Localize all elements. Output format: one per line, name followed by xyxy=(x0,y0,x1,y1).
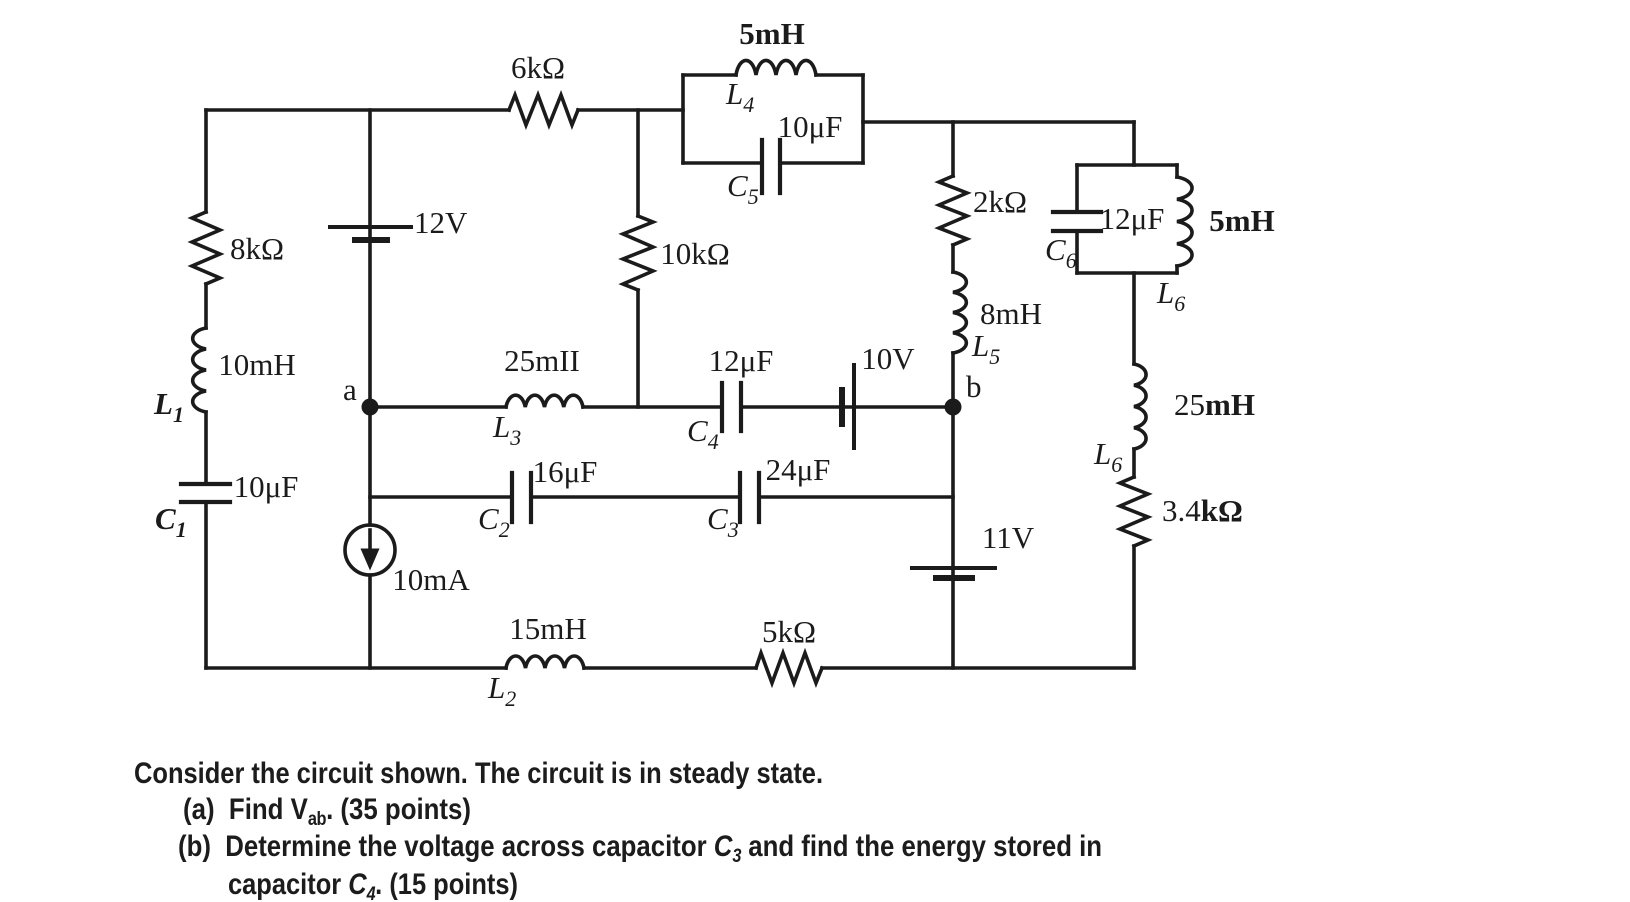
wire bottom left xyxy=(206,666,506,670)
wire top-left horizontal xyxy=(206,108,509,112)
wire lower mid-rail left xyxy=(370,495,512,499)
resistor 10kOhm xyxy=(623,216,653,290)
svg-text:16μF: 16μF xyxy=(533,454,598,489)
svg-text:3.4kΩ: 3.4kΩ xyxy=(1162,493,1243,528)
box C6-L6 right edge upper xyxy=(1175,165,1179,177)
question text line 4 xyxy=(228,870,518,902)
svg-text:5kΩ: 5kΩ xyxy=(762,614,816,649)
svg-text:2kΩ: 2kΩ xyxy=(973,184,1027,219)
box L4-C5 right edge xyxy=(861,75,865,163)
capacitor C1 plates xyxy=(181,484,230,502)
box L4-C5 bottom edge left xyxy=(683,161,762,165)
box C6-L6 right edge lower xyxy=(1175,266,1179,273)
wire box to 25mH xyxy=(1132,273,1136,364)
wire 12V branch through battery to node a and current source xyxy=(368,110,372,525)
svg-text:L5: L5 xyxy=(971,328,1000,369)
box L4-C5 bottom edge right xyxy=(780,161,863,165)
svg-text:C2: C2 xyxy=(478,501,510,542)
inductor 25mH coil right xyxy=(1134,364,1146,449)
svg-text:L1: L1 xyxy=(153,386,184,427)
wire bottom middle xyxy=(584,666,756,670)
inductor L3 25mH coil xyxy=(506,395,583,407)
svg-text:10kΩ: 10kΩ xyxy=(660,236,730,271)
wire L5 to node b xyxy=(951,353,955,407)
svg-text:C1: C1 xyxy=(155,501,187,542)
wire right branch top xyxy=(1132,122,1136,165)
wire 2k branch top xyxy=(951,122,955,176)
svg-text:10μF: 10μF xyxy=(234,469,299,504)
wire top right horizontal xyxy=(863,120,1134,124)
svg-text:12V: 12V xyxy=(414,205,468,240)
inductor L6 5mH coil in box xyxy=(1177,177,1192,266)
capacitor C2 plates xyxy=(512,473,531,522)
svg-text:10μF: 10μF xyxy=(778,109,843,144)
resistor 5kOhm xyxy=(756,653,822,683)
wire node a to L3 xyxy=(370,405,506,409)
wire 10k branch upper xyxy=(636,110,640,216)
capacitor C6 plates xyxy=(1053,212,1101,231)
inductor L4 5mH coil xyxy=(736,60,816,75)
svg-text:6kΩ: 6kΩ xyxy=(511,50,565,85)
wire left rail upper xyxy=(204,110,208,212)
wire top horizontal right of 6k resistor xyxy=(578,108,683,112)
capacitor C3 plates xyxy=(740,473,759,522)
svg-text:12μF: 12μF xyxy=(1100,201,1165,236)
svg-text:8kΩ: 8kΩ xyxy=(230,231,284,266)
node b dot xyxy=(945,399,962,416)
svg-text:L6: L6 xyxy=(1156,275,1185,316)
box C6-L6 left edge upper xyxy=(1075,165,1079,212)
wire between 2k and L5 xyxy=(951,245,955,272)
svg-text:10V: 10V xyxy=(861,341,915,376)
wire 25mH to 3.4k xyxy=(1132,449,1136,477)
current source 10mA circle xyxy=(345,525,395,575)
wire C4 through 10V battery to node b xyxy=(741,405,953,409)
inductor L2 15mH coil xyxy=(506,656,584,668)
question text line 3 xyxy=(178,832,1102,872)
svg-text:C6: C6 xyxy=(1045,232,1077,273)
svg-text:C4: C4 xyxy=(687,413,719,454)
svg-text:L2: L2 xyxy=(487,670,516,711)
box L4-C5 left edge xyxy=(681,75,685,163)
svg-text:10mA: 10mA xyxy=(392,562,470,597)
box C6-L6 left edge lower xyxy=(1075,231,1079,273)
svg-text:L4: L4 xyxy=(725,76,754,117)
inductor L5 8mH coil xyxy=(953,272,966,353)
box L4-C5 top edge left xyxy=(683,73,736,77)
box C6-L6 top edge xyxy=(1077,163,1177,167)
svg-text:a: a xyxy=(343,372,357,407)
wire 10k branch lower xyxy=(636,290,640,407)
wire node b down through 11V battery to bottom xyxy=(951,407,955,668)
battery 11V plates xyxy=(912,566,995,570)
resistor 8kOhm xyxy=(192,212,220,284)
svg-text:10mH: 10mH xyxy=(218,347,296,382)
wire 3.4k to bottom xyxy=(1132,546,1136,668)
box L4-C5 top edge right xyxy=(816,73,863,77)
current source arrow xyxy=(368,530,372,552)
svg-text:11V: 11V xyxy=(982,520,1035,555)
resistor 2kOhm xyxy=(939,176,967,245)
capacitor C4 plates xyxy=(722,383,741,431)
capacitor C5 plates xyxy=(762,140,780,193)
resistor 6kOhm xyxy=(509,95,578,125)
box C6-L6 bottom edge xyxy=(1077,271,1177,275)
svg-text:8mH: 8mH xyxy=(980,296,1042,331)
svg-text:25mH: 25mH xyxy=(1174,387,1255,422)
svg-text:C5: C5 xyxy=(727,168,759,209)
wire left rail between 8k and L1 xyxy=(204,284,208,328)
wire L3 to C4 xyxy=(583,405,722,409)
svg-text:L6: L6 xyxy=(1093,436,1122,477)
svg-text:L3: L3 xyxy=(492,409,521,450)
wire C2 to C3 xyxy=(531,495,740,499)
battery 10V plates xyxy=(839,390,845,424)
question text line 2 xyxy=(183,795,471,835)
question text line 1 xyxy=(134,759,823,789)
svg-text:12μF: 12μF xyxy=(709,343,774,378)
svg-text:15mH: 15mH xyxy=(509,611,587,646)
wire left rail lower xyxy=(204,502,208,668)
resistor 3.4kOhm xyxy=(1120,477,1148,546)
node a dot xyxy=(362,399,379,416)
wire current source to bottom xyxy=(368,575,372,668)
svg-text:b: b xyxy=(966,369,982,404)
wire C3 to right xyxy=(759,495,953,499)
battery 12V plates xyxy=(330,225,411,229)
inductor L1 10mH coil xyxy=(193,328,206,412)
svg-text:24μF: 24μF xyxy=(766,452,831,487)
svg-text:25mII: 25mII xyxy=(504,343,580,378)
svg-text:C3: C3 xyxy=(707,501,739,542)
svg-text:5mH: 5mH xyxy=(1209,203,1274,238)
wire left rail between L1 and C1 xyxy=(204,412,208,484)
wire bottom right xyxy=(822,666,1134,670)
svg-text:5mH: 5mH xyxy=(739,16,804,51)
